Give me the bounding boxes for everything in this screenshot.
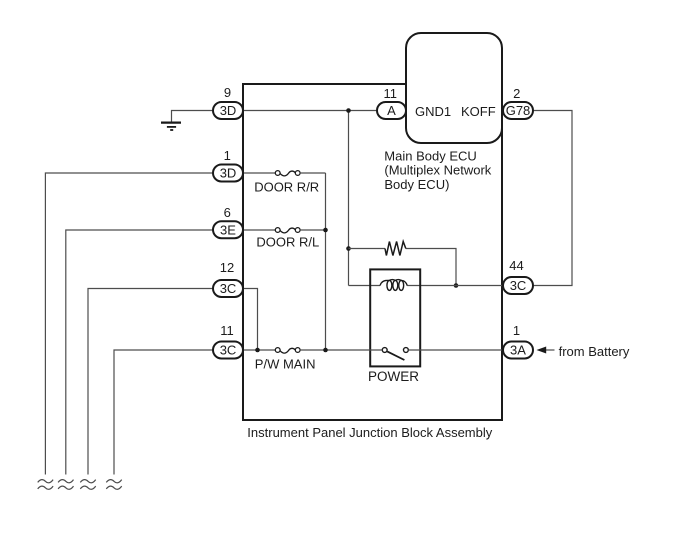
connector 3C pin 44 — [503, 258, 533, 294]
svg-text:3C: 3C — [220, 343, 237, 358]
svg-text:1: 1 — [224, 148, 231, 163]
svg-text:P/W MAIN: P/W MAIN — [255, 356, 316, 371]
wire: breaker P/W MAIN to relay switch — [300, 349, 382, 351]
circuit breaker DOOR R/L — [275, 228, 300, 233]
wire: relay switch to 3A pin 1 — [408, 349, 503, 351]
svg-text:from Battery: from Battery — [559, 344, 630, 359]
junction: DOOR R/L bus node — [323, 228, 328, 233]
svg-text:3C: 3C — [510, 278, 527, 293]
relay POWER box — [368, 269, 420, 384]
wire break squiggle 4 — [106, 480, 121, 490]
wire: 3D pin 1 to breaker DOOR R/R — [243, 172, 275, 174]
svg-text:9: 9 — [224, 85, 231, 100]
wire: long lead from 3D pin 1 — [45, 173, 213, 475]
svg-text:A: A — [387, 103, 396, 118]
svg-text:3A: 3A — [510, 343, 526, 358]
wire: long lead from 3C pin 11 — [114, 350, 213, 475]
wire: resistor leads — [349, 249, 457, 286]
wire: 3E pin 6 to breaker DOOR R/L — [243, 229, 275, 231]
svg-text:DOOR R/R: DOOR R/R — [254, 180, 319, 195]
Instrument Panel Junction Block Assembly box — [243, 84, 502, 440]
svg-text:Body ECU): Body ECU) — [384, 177, 449, 192]
wire: 3D pin 9 to ECU pin A (GND1) — [243, 110, 377, 112]
svg-text:POWER: POWER — [368, 369, 419, 384]
svg-text:3C: 3C — [220, 281, 237, 296]
junction: bus to P/W MAIN node — [323, 348, 328, 353]
wire break squiggle 2 — [58, 480, 73, 490]
ECU connector A pin 11 — [377, 86, 406, 119]
wire: vertical bus x325.5 — [325, 173, 327, 350]
wire: 3C pin 12 jog down to P/W MAIN line — [243, 289, 258, 351]
wire: G78 to 3C pin 44 — [533, 111, 573, 286]
wire: ground to connector 3D pin 9 — [172, 111, 214, 122]
svg-text:Main Body ECU: Main Body ECU — [384, 148, 476, 163]
svg-text:44: 44 — [509, 258, 523, 273]
svg-text:1: 1 — [513, 323, 520, 338]
junction: 3C12 node on P/W MAIN line — [255, 348, 260, 353]
junction: coil line node — [454, 283, 459, 288]
svg-text:DOOR R/L: DOOR R/L — [256, 235, 319, 250]
svg-text:G78: G78 — [506, 103, 531, 118]
svg-text:2: 2 — [513, 86, 520, 101]
junction: wire node on GND1 line — [346, 108, 351, 113]
svg-text:11: 11 — [220, 323, 234, 338]
wire break squiggle 3 — [80, 480, 95, 490]
connector 3D pin 1 — [213, 148, 243, 182]
svg-text:12: 12 — [220, 260, 234, 275]
svg-text:(Multiplex Network: (Multiplex Network — [384, 163, 491, 178]
wire: breaker DOOR R/R to vertical bus — [300, 172, 325, 174]
wire break squiggle 1 — [38, 480, 53, 490]
svg-text:11: 11 — [384, 86, 398, 101]
svg-text:3D: 3D — [220, 166, 237, 181]
ECU connector G78 pin 2 — [503, 86, 533, 119]
svg-text:3D: 3D — [220, 103, 237, 118]
svg-text:Instrument Panel Junction Bloc: Instrument Panel Junction Block Assembly — [247, 425, 492, 440]
circuit breaker P/W MAIN — [275, 348, 300, 354]
wire: 3C pin 11 to breaker P/W MAIN — [243, 349, 275, 351]
wire: long lead from 3E pin 6 — [66, 230, 213, 475]
wire: coil line from node to relay and to 3C pin 44 — [349, 285, 504, 287]
connector 3C pin 12 — [213, 260, 243, 297]
ground — [161, 123, 181, 130]
relay coil L1 — [380, 280, 407, 291]
wire: breaker DOOR R/L to bus junction — [300, 229, 325, 231]
svg-text:KOFF: KOFF — [461, 104, 496, 119]
svg-text:6: 6 — [224, 205, 231, 220]
from Battery arrow — [537, 344, 630, 359]
connector 3A pin 1 — [503, 323, 533, 359]
wire: long lead from 3C pin 12 — [88, 289, 213, 475]
connector 3E pin 6 — [213, 205, 243, 238]
connector 3D pin 9 — [213, 85, 243, 119]
relay switch contacts — [382, 348, 408, 360]
svg-text:3E: 3E — [220, 223, 236, 238]
junction: resistor branch node — [346, 246, 351, 251]
connector 3C pin 11 — [213, 323, 243, 359]
wire: node at x348.5 down to coil line — [348, 111, 350, 286]
svg-text:GND1: GND1 — [415, 104, 451, 119]
Main Body ECU U1 box — [384, 33, 502, 192]
circuit breaker DOOR R/R — [275, 171, 300, 176]
resistor — [385, 242, 406, 256]
